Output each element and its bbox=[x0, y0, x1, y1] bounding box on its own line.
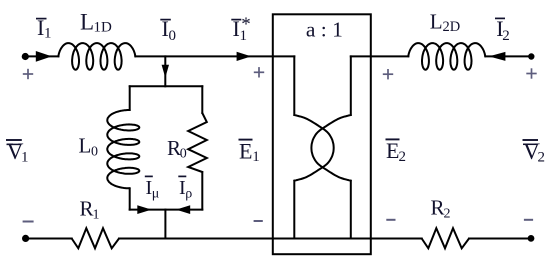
svg-text:μ: μ bbox=[152, 187, 160, 202]
wire: node I0 down to magnetizing branch bbox=[164, 56, 166, 86]
polarity - at E1 bottom bbox=[254, 220, 263, 222]
ideal transformer T1 outer box bbox=[273, 14, 371, 254]
arrow: current I1 (points right) bbox=[36, 51, 52, 62]
svg-text:2: 2 bbox=[444, 207, 451, 222]
overbar of V1 (lower) bbox=[7, 143, 22, 145]
overbar of I0 bbox=[160, 19, 171, 21]
wire: secondary winding top stub bbox=[350, 56, 352, 115]
svg-text:1D: 1D bbox=[94, 20, 113, 36]
overbar of I1* bbox=[231, 19, 241, 21]
resistor R0 bbox=[188, 113, 207, 172]
polarity + at V2 top bbox=[526, 68, 536, 78]
svg-text:2: 2 bbox=[502, 28, 510, 44]
svg-text:E: E bbox=[386, 138, 399, 163]
svg-text:ρ: ρ bbox=[185, 187, 192, 202]
node: left bottom terminal dot bbox=[22, 235, 29, 242]
svg-text:0: 0 bbox=[169, 28, 177, 44]
overbar of Imu bbox=[145, 175, 153, 177]
polarity - at V1 bottom bbox=[23, 221, 34, 223]
node: left top terminal dot bbox=[22, 53, 29, 60]
svg-text:*: * bbox=[241, 14, 251, 35]
node: right bottom terminal dot bbox=[528, 235, 535, 242]
inductor L2D bbox=[408, 43, 485, 70]
polarity + at V1 top bbox=[23, 69, 33, 79]
svg-text:R: R bbox=[80, 197, 94, 221]
wire: R0 top stub bbox=[201, 86, 203, 113]
svg-text:1: 1 bbox=[93, 208, 100, 223]
overbar of V1 (upper) bbox=[6, 139, 22, 141]
wire: L1D to transformer left winding (through node I0) bbox=[135, 55, 294, 57]
svg-text:a : 1: a : 1 bbox=[306, 18, 343, 42]
polarity - at E2 bottom bbox=[386, 219, 395, 221]
overbar of V2 (lower) bbox=[523, 143, 538, 145]
arrow: current I1* (points right) bbox=[237, 52, 252, 61]
wire: left terminal to L1D bbox=[25, 55, 58, 57]
svg-text:0: 0 bbox=[180, 147, 187, 162]
wire: magnetizing branch bottom bbox=[130, 209, 203, 211]
overbar of Irho bbox=[178, 175, 186, 177]
wire: primary winding top stub bbox=[293, 56, 295, 115]
svg-text:E: E bbox=[239, 139, 252, 164]
inductor L1D bbox=[58, 43, 135, 70]
svg-text:L: L bbox=[430, 9, 443, 33]
wire: primary winding bottom stub bbox=[293, 181, 295, 239]
polarity + at E1 top bbox=[254, 67, 264, 77]
transformer primary winding curve bbox=[294, 115, 333, 181]
wire: bottom rail through transformer box bbox=[119, 238, 422, 240]
wire: magnetizing branch top bbox=[130, 85, 203, 87]
overbar of I1 bbox=[36, 18, 47, 20]
inductor L0 bbox=[107, 110, 139, 188]
svg-text:L: L bbox=[80, 10, 94, 35]
wire: magnetizing branch to bottom rail bbox=[164, 210, 166, 239]
wire: transformer right to L2D bbox=[351, 55, 409, 57]
arrow: current I2 (points left) bbox=[489, 52, 506, 61]
wire: L2D to right terminal bbox=[485, 55, 531, 57]
transformer secondary winding curve bbox=[311, 115, 350, 181]
overbar of E1 bbox=[239, 139, 253, 141]
wire: L0 top stub bbox=[129, 86, 131, 110]
svg-text:L: L bbox=[79, 134, 92, 158]
svg-text:2: 2 bbox=[399, 149, 407, 165]
wire: R0 bottom stub bbox=[201, 172, 203, 210]
svg-text:2: 2 bbox=[538, 150, 546, 166]
wire: R2 to right bottom terminal bbox=[469, 238, 531, 240]
polarity - at V2 bottom bbox=[524, 219, 533, 221]
polarity + at E2 top bbox=[383, 69, 393, 79]
svg-text:2D: 2D bbox=[443, 19, 461, 35]
resistor R1 bbox=[72, 228, 119, 248]
svg-text:1: 1 bbox=[21, 150, 29, 166]
overbar of E2 bbox=[386, 138, 400, 140]
arrow: current Irho (points left) bbox=[176, 205, 190, 214]
wire: left bottom terminal to R1 bbox=[26, 238, 72, 240]
svg-text:0: 0 bbox=[91, 145, 98, 160]
svg-text:1: 1 bbox=[44, 26, 52, 42]
wire: L0 bottom stub bbox=[129, 188, 131, 209]
arrow: current I0 (points down) bbox=[162, 65, 169, 78]
node: right top terminal dot bbox=[528, 53, 534, 59]
arrow: current Imu (points right) bbox=[137, 205, 151, 214]
svg-text:R: R bbox=[431, 196, 445, 220]
overbar of I2 bbox=[495, 17, 505, 19]
wire: secondary winding bottom stub bbox=[350, 181, 352, 239]
resistor R2 bbox=[422, 228, 469, 248]
svg-text:1: 1 bbox=[252, 149, 259, 165]
overbar of V2 (upper) bbox=[523, 139, 539, 141]
